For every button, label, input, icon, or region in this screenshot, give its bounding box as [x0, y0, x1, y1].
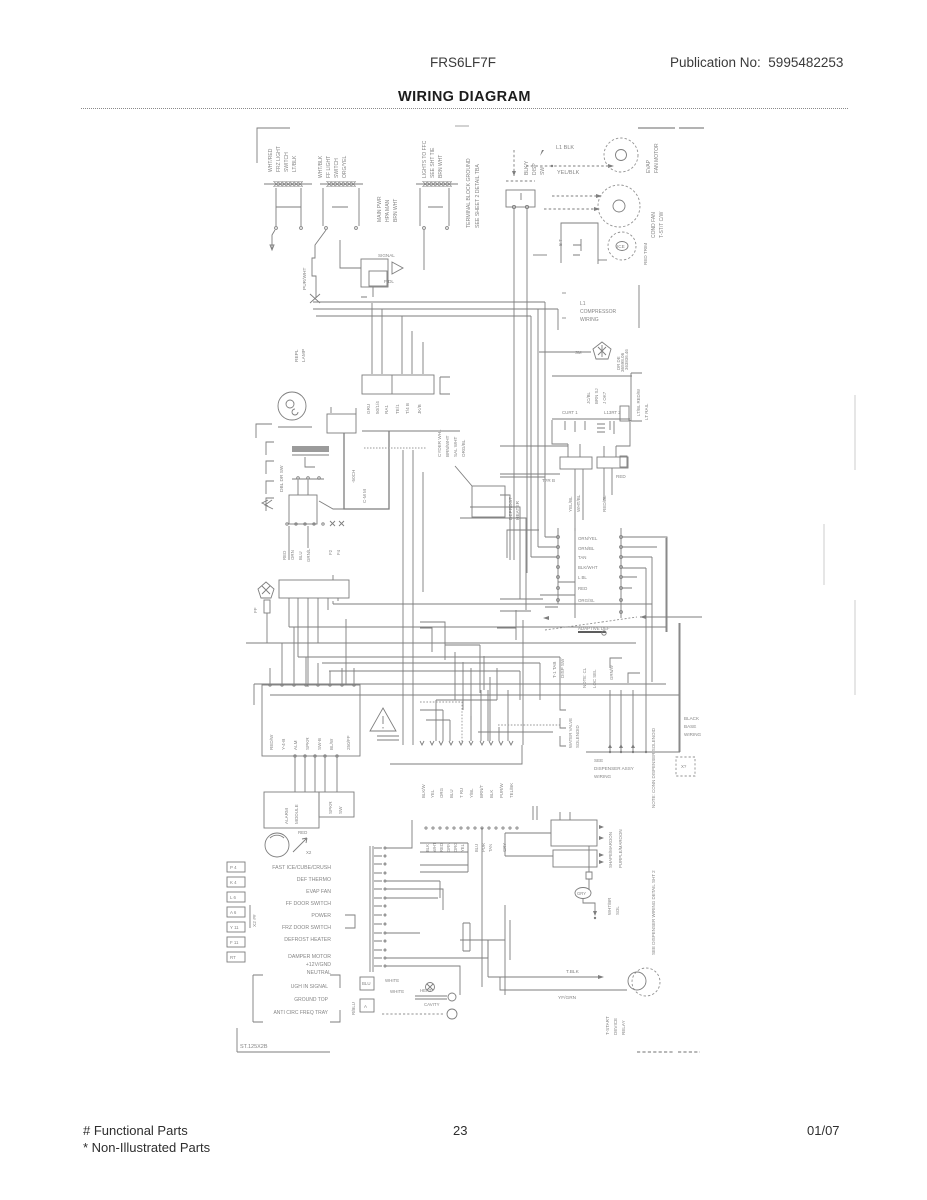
- svg-text:ORN/YEL: ORN/YEL: [578, 536, 598, 541]
- svg-text:REPL: REPL: [294, 349, 300, 362]
- svg-text:DISP: DISP: [532, 163, 538, 175]
- footer non-illustrated note: [83, 1140, 210, 1155]
- header publication number: [670, 55, 843, 70]
- terminal block ground note: [466, 158, 481, 228]
- defrost thermostat box: [361, 259, 388, 287]
- svg-text:ALM: ALM: [293, 740, 298, 750]
- svg-text:K 4: K 4: [230, 880, 237, 885]
- fresh food lamp: [258, 582, 274, 598]
- neutral rail wire: [390, 763, 415, 765]
- svg-text:NOTE: CL: NOTE: CL: [582, 667, 587, 688]
- svg-text:DBL DR SW: DBL DR SW: [279, 465, 285, 492]
- label freezer light switch S1: [268, 146, 298, 172]
- compressor motor: [632, 968, 660, 996]
- svg-text:LOC SEL: LOC SEL: [592, 669, 597, 688]
- svg-text:BLU: BLU: [362, 981, 371, 986]
- wires into water valve: [505, 806, 570, 856]
- connector row labels: [421, 783, 514, 798]
- svg-text:ORN/BL: ORN/BL: [578, 546, 595, 551]
- svg-text:BLU: BLU: [474, 844, 479, 852]
- svg-text:F4: F4: [336, 549, 341, 555]
- corner bracket top-left: [257, 128, 290, 163]
- compressor relay box: [561, 223, 598, 264]
- svg-text:SM: SM: [575, 350, 582, 355]
- connector finger hooks: [266, 442, 274, 511]
- condenser fan motor M2: [598, 185, 640, 227]
- wire twin drop from switch box: [514, 209, 527, 573]
- svg-text:ORG/YEL: ORG/YEL: [342, 156, 348, 178]
- svg-text:YEL/BLK: YEL/BLK: [557, 170, 580, 176]
- svg-text:BL/W: BL/W: [329, 738, 334, 750]
- svg-text:FF DOOR SWITCH: FF DOOR SWITCH: [286, 901, 331, 907]
- svg-text:DISPENSER ASSY: DISPENSER ASSY: [594, 766, 634, 771]
- left corner bracket: [256, 424, 272, 438]
- svg-text:WHT/BL: WHT/BL: [576, 494, 581, 512]
- svg-text:SEE SHEET 2 DETAIL TBA: SEE SHEET 2 DETAIL TBA: [475, 164, 481, 228]
- wire arrow left: [640, 616, 702, 618]
- wire comb to conduit: [319, 501, 344, 509]
- svg-text:L BL: L BL: [578, 575, 587, 580]
- svg-text:DEFROST: DEFROST: [508, 497, 514, 520]
- svg-text:UGH IN SIGNAL: UGH IN SIGNAL: [291, 984, 328, 990]
- svg-text:BRN WHT: BRN WHT: [438, 155, 444, 178]
- bracket near power: [345, 915, 355, 928]
- svg-text:FAST ICE/CUBE/CRUSH: FAST ICE/CUBE/CRUSH: [272, 865, 331, 871]
- svg-text:F 11: F 11: [230, 940, 239, 945]
- defrost snowflake symbol: [593, 342, 611, 359]
- svg-text:SPKR: SPKR: [328, 801, 333, 814]
- svg-text:BLK: BLK: [489, 790, 494, 798]
- svg-text:JC/BL: JC/BL: [586, 391, 591, 404]
- svg-text:ICE: ICE: [617, 244, 625, 249]
- svg-text:F DL: F DL: [384, 279, 394, 284]
- svg-text:FRZ DOOR SWITCH: FRZ DOOR SWITCH: [282, 925, 331, 931]
- svg-text:BLK/W: BLK/W: [421, 783, 426, 798]
- left step wires to CN1: [497, 599, 543, 628]
- CN1 left stubs: [531, 537, 575, 607]
- svg-text:PUR/W: PUR/W: [499, 783, 504, 798]
- timer motor circle: [278, 392, 306, 420]
- svg-text:BLU: BLU: [298, 551, 303, 560]
- svg-text:YEL: YEL: [430, 789, 435, 798]
- junction arrow on main feed: [533, 254, 547, 256]
- black base wiring note: [684, 716, 702, 737]
- svg-text:BRN WHT: BRN WHT: [393, 199, 399, 222]
- water valve coil 1: [551, 820, 597, 846]
- svg-text:BLACK: BLACK: [684, 716, 700, 721]
- conduit wire loop: [344, 431, 389, 509]
- svg-text:TEL/BK: TEL/BK: [509, 783, 514, 798]
- label light switch S3: [422, 140, 444, 178]
- left bottom riser: [460, 905, 510, 995]
- wires from board edge: [386, 820, 488, 995]
- svg-text:RT: RT: [230, 955, 236, 960]
- svg-text:BLK: BLK: [425, 844, 430, 852]
- arrow mark: [265, 500, 273, 509]
- svg-text:DEVICE: DEVICE: [613, 1018, 618, 1035]
- svg-text:TE/1: TE/1: [395, 404, 400, 414]
- svg-text:L13RT 2: L13RT 2: [604, 410, 621, 415]
- X2 label: [249, 905, 251, 928]
- aux relay box: [327, 414, 356, 433]
- svg-text:ORG/BL: ORG/BL: [461, 439, 466, 457]
- center mesh corners: [420, 622, 480, 720]
- arrow mark: [262, 500, 268, 506]
- mesh corner drops: [254, 619, 560, 705]
- bus drop wires: [531, 302, 545, 557]
- left strip connector row 1: [227, 862, 245, 962]
- svg-text:FF LIGHT: FF LIGHT: [326, 156, 332, 178]
- svg-text:T.BLK: T.BLK: [566, 969, 580, 975]
- hooks water valve labels: [560, 700, 566, 746]
- svg-text:BLK/Y: BLK/Y: [524, 160, 530, 175]
- svg-text:FAN MOTOR: FAN MOTOR: [654, 143, 660, 173]
- svg-text:BRN/WHT: BRN/WHT: [445, 435, 450, 457]
- svg-text:T RU: T RU: [459, 788, 464, 798]
- lower left dashed box: [253, 975, 340, 1022]
- svg-text:MODULE: MODULE: [294, 804, 299, 824]
- dispenser assy note: [594, 758, 634, 779]
- dispenser switch connector row: [415, 745, 522, 764]
- wire from S3: [423, 230, 425, 270]
- svg-text:Y/BL: Y/BL: [469, 788, 474, 798]
- svg-text:PUR/WHT: PUR/WHT: [302, 268, 308, 290]
- svg-text:TERMINAL BLOCK GROUND: TERMINAL BLOCK GROUND: [466, 158, 472, 228]
- svg-text:A: A: [364, 1004, 367, 1009]
- wire to defrost symbol: [539, 351, 591, 353]
- svg-text:L1: L1: [580, 301, 586, 307]
- warning triangle: [370, 708, 396, 731]
- dotted and solid cross wires: [498, 724, 560, 726]
- svg-text:YF/GRN: YF/GRN: [558, 995, 577, 1001]
- svg-text:FRZ LIGHT: FRZ LIGHT: [276, 146, 282, 172]
- svg-text:LT/BLK: LT/BLK: [292, 155, 298, 172]
- svg-text:R/BLU: R/BLU: [351, 1002, 356, 1015]
- svg-text:SW-B: SW-B: [317, 738, 322, 750]
- label door switch: [279, 465, 285, 492]
- svg-text:X2: X2: [306, 850, 312, 855]
- svg-text:WIRING: WIRING: [580, 317, 599, 323]
- footer functional parts note: [83, 1123, 188, 1138]
- svg-text:SHAPE/MAROON: SHAPE/MAROON: [608, 832, 613, 868]
- PTC rail drops: [552, 420, 630, 446]
- dashed dispenser outline: [420, 702, 462, 744]
- svg-text:BRN SJ: BRN SJ: [594, 388, 599, 404]
- svg-text:BLU: BLU: [449, 789, 454, 798]
- svg-text:SAL WHT: SAL WHT: [453, 437, 458, 457]
- svg-text:NEUTRAL: NEUTRAL: [307, 970, 331, 976]
- svg-text:WHT: WHT: [432, 842, 437, 852]
- wire from buzzer: [361, 287, 373, 297]
- svg-text:T?R B: T?R B: [542, 478, 555, 483]
- svg-text:SWITCH: SWITCH: [334, 158, 340, 178]
- svg-text:P 4: P 4: [230, 865, 237, 870]
- svg-text:-50CH: -50CH: [351, 470, 356, 483]
- zigzag wire PUR/WHT: [312, 230, 326, 298]
- wire from S2 to buzzer box: [340, 240, 361, 268]
- faint right edge marks: [824, 395, 855, 695]
- rotated wire color labels column: [351, 429, 466, 503]
- svg-text:SOL: SOL: [615, 906, 620, 915]
- footer date: [807, 1123, 840, 1138]
- top tick mark: [455, 125, 469, 127]
- wires bus to thermostat: [372, 303, 423, 374]
- buzzer triangle: [392, 262, 403, 274]
- mesh left of water valve: [420, 828, 482, 987]
- svg-text:LIGHTS TO FFC: LIGHTS TO FFC: [422, 140, 428, 178]
- dispenser rail: [586, 623, 680, 752]
- svg-text:SEE SHT TIE: SEE SHT TIE: [430, 147, 436, 178]
- speaker box: [319, 792, 354, 817]
- bulb symbol: [588, 846, 590, 872]
- svg-text:GROUND TOP: GROUND TOP: [294, 997, 328, 1003]
- PTC overload rails: [552, 376, 632, 419]
- svg-text:T-ST/T C/W: T-ST/T C/W: [659, 211, 665, 238]
- svg-text:SW: SW: [338, 806, 343, 814]
- svg-text:BLK/WHT: BLK/WHT: [578, 565, 598, 570]
- dotted separator: [364, 447, 427, 449]
- svg-text:ANTI CIRC FREQ TRAY: ANTI CIRC FREQ TRAY: [273, 1010, 328, 1016]
- svg-text:PURPLE/MAROON: PURPLE/MAROON: [618, 829, 623, 868]
- svg-text:SIGNAL: SIGNAL: [378, 253, 395, 258]
- svg-text:TAN: TAN: [578, 555, 586, 560]
- sub terminal boxes: [360, 977, 374, 990]
- svg-text:MAIN PWR: MAIN PWR: [377, 196, 383, 222]
- svg-text:WHT/BLK: WHT/BLK: [318, 155, 324, 178]
- lower pin row: [425, 827, 518, 829]
- svg-text:B T: B T: [558, 239, 563, 246]
- heat probe cluster: [426, 983, 435, 992]
- svg-text:Y-4-B: Y-4-B: [281, 739, 286, 750]
- svg-text:RED TRIM: RED TRIM: [643, 243, 648, 265]
- svg-text:BASE: BASE: [684, 724, 696, 729]
- svg-text:WHITE: WHITE: [385, 978, 399, 983]
- compressor wiring note: [580, 301, 617, 323]
- center connector CN1: [558, 528, 621, 618]
- alarm lamp: [265, 833, 289, 857]
- svg-text:GRN/W: GRN/W: [609, 664, 614, 680]
- svg-text:LT/BL RED/W: LT/BL RED/W: [636, 388, 641, 416]
- adaptive defrost note: [578, 626, 610, 688]
- board net name list: [272, 865, 331, 976]
- side connector stub: [440, 377, 450, 394]
- svg-text:T-1 TAB: T-1 TAB: [552, 662, 557, 678]
- GRY bubble: [575, 888, 591, 899]
- svg-text:HPA MAN: HPA MAN: [385, 199, 391, 222]
- svg-text:COMPRESSOR: COMPRESSOR: [580, 309, 617, 315]
- svg-text:WHT/RED: WHT/RED: [268, 148, 274, 172]
- wires connector boxes down: [575, 468, 612, 531]
- heater lower bracket: [507, 530, 539, 558]
- svg-text:RED: RED: [578, 586, 587, 591]
- svg-text:DEFROST HEATER: DEFROST HEATER: [284, 937, 331, 943]
- svg-text:ADAPTIVE DEF: ADAPTIVE DEF: [578, 626, 610, 631]
- svg-text:DEF THERMO: DEF THERMO: [297, 877, 331, 883]
- svg-text:T/4 B: T/4 B: [405, 403, 410, 414]
- cold control thermostat block: [362, 375, 434, 394]
- lower pin row: [286, 523, 288, 525]
- svg-text:RED: RED: [282, 551, 287, 560]
- svg-text:GRY: GRY: [502, 843, 507, 852]
- svg-text:HEAT: HEAT: [420, 988, 432, 993]
- label dispenser switch: [524, 160, 546, 175]
- stems into connector: [471, 690, 508, 741]
- svg-text:T-START: T-START: [605, 1016, 610, 1035]
- dispenser light switch box: [506, 190, 535, 207]
- svg-text:WATER VALVE: WATER VALVE: [568, 718, 573, 748]
- wires J2 to mesh: [289, 601, 333, 687]
- L1 feed dashed wires: [506, 150, 608, 181]
- long horizontal mesh wires: [246, 604, 679, 695]
- PTC pins: [565, 421, 614, 434]
- label repl lamp: [294, 349, 307, 362]
- svg-text:WIRING: WIRING: [684, 732, 702, 737]
- svg-text:WIRING: WIRING: [594, 774, 612, 779]
- svg-text:GRN: GRN: [446, 843, 451, 852]
- compressor feed wires: [488, 940, 627, 990]
- svg-text:F2: F2: [328, 549, 333, 555]
- title underline: [81, 108, 848, 109]
- water valve coil 2: [553, 850, 597, 867]
- vertical drop wires: [403, 450, 423, 745]
- svg-text:NOTE: CONN DISPENSER SOLENOID: NOTE: CONN DISPENSER SOLENOID: [651, 727, 656, 808]
- svg-text:LT RAIL: LT RAIL: [644, 403, 649, 420]
- svg-text:A 6: A 6: [230, 910, 237, 915]
- svg-text:TAN: TAN: [488, 844, 493, 852]
- svg-text:ORG/SL: ORG/SL: [578, 598, 595, 603]
- light switch S3: [416, 183, 458, 185]
- step wires left of center connector: [460, 495, 526, 610]
- lamp resistor: [264, 600, 270, 613]
- CN1 right wires: [622, 537, 667, 632]
- svg-text:POWER: POWER: [311, 913, 331, 919]
- mid connector block J2: [279, 580, 349, 598]
- svg-text:L1 BLK: L1 BLK: [556, 145, 574, 151]
- header model number: [430, 55, 496, 70]
- board edge pins: [374, 847, 386, 967]
- svg-text:LAMP: LAMP: [301, 349, 307, 362]
- svg-text:250/FF: 250/FF: [346, 735, 351, 750]
- rotated labels T-1: [552, 658, 565, 678]
- svg-text:EVAP: EVAP: [646, 159, 652, 173]
- adc dark underline: [578, 631, 606, 633]
- svg-text:X?: X?: [681, 764, 687, 769]
- svg-text:SOLENOID: SOLENOID: [575, 725, 580, 748]
- svg-text:WHT/BR: WHT/BR: [607, 898, 612, 915]
- dashed connector box: [676, 757, 695, 776]
- evap fan motor M1: [604, 138, 638, 172]
- main control board: [262, 685, 360, 756]
- svg-text:J OK7: J OK7: [602, 391, 607, 404]
- svg-text:CURT 1: CURT 1: [562, 410, 578, 415]
- footer page number: [453, 1123, 467, 1138]
- bottom right dashes: [637, 1051, 700, 1053]
- svg-text:RED: RED: [439, 843, 444, 852]
- svg-text:WHITE: WHITE: [390, 989, 404, 994]
- svg-text:SWITCH: SWITCH: [284, 152, 290, 172]
- right mesh verticals: [646, 538, 679, 752]
- svg-text:ORG: ORG: [453, 842, 458, 852]
- motor M3: [608, 232, 636, 260]
- long vertical note text: [651, 727, 656, 955]
- top dash marks: [638, 127, 704, 129]
- svg-text:ALARM: ALARM: [284, 808, 289, 824]
- lower row labels: [425, 842, 507, 852]
- drawing number: [237, 1028, 330, 1052]
- dispenser connector boxes: [560, 457, 592, 469]
- light switch S1: [264, 183, 312, 185]
- svg-text:BRN/T: BRN/T: [479, 785, 484, 798]
- svg-text:ORG: ORG: [439, 787, 444, 798]
- wire relay to motor M3: [598, 259, 607, 261]
- dashed probe wire: [382, 1013, 444, 1015]
- svg-text:CAVITY: CAVITY: [424, 1002, 440, 1007]
- alarm box: [264, 792, 319, 828]
- bus wires: [313, 302, 558, 316]
- svg-text:Y 11: Y 11: [230, 925, 239, 930]
- svg-text:RA1: RA1: [384, 405, 389, 414]
- right bracket shapes: [631, 373, 642, 421]
- svg-text:EVAP FAN: EVAP FAN: [306, 889, 331, 895]
- svg-text:CYDER WH1: CYDER WH1: [437, 429, 442, 457]
- svg-text:+12V/GND: +12V/GND: [306, 962, 331, 968]
- svg-text:SEE: SEE: [594, 758, 603, 763]
- svg-text:DAMPER MOTOR: DAMPER MOTOR: [288, 954, 331, 960]
- svg-text:RED/W: RED/W: [269, 734, 274, 750]
- svg-text:ST.125X2B: ST.125X2B: [240, 1044, 268, 1050]
- svg-text:RED: RED: [298, 830, 307, 835]
- svg-text:FF: FF: [253, 607, 258, 613]
- svg-text:RELAY: RELAY: [621, 1020, 626, 1035]
- svg-text:ORN: ORN: [290, 550, 295, 560]
- svg-text:GRN/L: GRN/L: [306, 548, 311, 562]
- extra mesh stems: [436, 610, 523, 745]
- mesh wire under thermostat: [362, 430, 460, 432]
- svg-text:SW: SW: [540, 167, 546, 175]
- timer pin row: [292, 478, 324, 480]
- rotated note label: [377, 196, 399, 222]
- svg-text:SEE DISPENSER WIRING DETAIL SH: SEE DISPENSER WIRING DETAIL SHT 2: [651, 870, 656, 955]
- timer comb box: [289, 495, 317, 524]
- svg-text:X2 ##: X2 ##: [252, 914, 258, 927]
- svg-text:JK/B: JK/B: [417, 404, 422, 414]
- svg-text:YEL/BL: YEL/BL: [568, 496, 573, 512]
- svg-text:GRU: GRU: [366, 404, 371, 414]
- page title: [398, 89, 531, 105]
- svg-text:RED/BL: RED/BL: [602, 495, 607, 512]
- svg-text:COND FAN: COND FAN: [651, 212, 657, 238]
- wires board to sub boxes: [295, 757, 337, 792]
- wire from S1: [270, 230, 275, 250]
- svg-text:YEL: YEL: [460, 843, 465, 852]
- right hooks: [610, 658, 640, 683]
- light switch S2: [320, 183, 363, 185]
- defrost timer hatch bar: [292, 446, 329, 452]
- svg-text:50/1/4: 50/1/4: [375, 401, 380, 414]
- svg-text:36598.06: 36598.06: [620, 352, 625, 372]
- defrost heater box with diagonal: [455, 466, 472, 486]
- svg-text:C-M M: C-M M: [362, 489, 367, 503]
- svg-text:GRY: GRY: [577, 891, 586, 896]
- svg-text:SPKR: SPKR: [305, 737, 310, 750]
- label fresh food light switch S2: [318, 155, 348, 178]
- board right edge double line: [370, 846, 373, 972]
- svg-text:RED: RED: [616, 474, 626, 479]
- label L1 BLK: [556, 145, 580, 176]
- defrost control dashed diagonals: [545, 617, 637, 630]
- svg-text:L 6: L 6: [230, 895, 236, 900]
- svg-text:DISP SW: DISP SW: [560, 658, 565, 678]
